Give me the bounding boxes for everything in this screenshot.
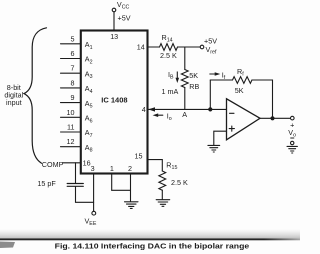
minus sign under Vo [291, 137, 294, 139]
svg-text:2.5 K: 2.5 K [160, 51, 177, 60]
ground at R15 [156, 200, 170, 207]
svg-text:7: 7 [71, 64, 75, 73]
wire capacitor bottom to pin 3 [76, 187, 94, 203]
svg-text:A7: A7 [85, 128, 93, 139]
svg-text:16: 16 [83, 159, 91, 168]
wire Rf to output node [252, 80, 273, 118]
svg-text:IC 1408: IC 1408 [101, 95, 127, 104]
arrow If current [210, 73, 217, 75]
op-amp U1 triangle [227, 99, 261, 140]
wire pin 5 input [61, 43, 81, 45]
svg-text:A1: A1 [85, 40, 93, 51]
svg-text:A2: A2 [85, 55, 93, 66]
arrow IB down [176, 72, 180, 84]
svg-text:If: If [222, 70, 226, 81]
wire pin 7 input [61, 72, 81, 74]
capacitor C 15pF plates [67, 184, 83, 187]
wire pin 12 input [61, 146, 81, 148]
brace for 8-bit digital input [24, 28, 47, 163]
terminal Vcc [112, 8, 116, 12]
wire pin 10 input [61, 116, 81, 118]
wire COMP branch down to capacitor [75, 163, 77, 183]
label 8-bit digital input [4, 83, 23, 107]
svg-text:15 pF: 15 pF [37, 179, 56, 188]
svg-text:Vo: Vo [288, 128, 296, 139]
caption rule [0, 238, 300, 240]
terminal Vo minus [291, 141, 294, 144]
wire pin 14 to R14 [148, 46, 160, 48]
svg-text:A3: A3 [85, 69, 93, 80]
svg-text:Fig. 14.110 Interfacing DAC in: Fig. 14.110 Interfacing DAC in the bipol… [55, 242, 249, 251]
pin number labels 5-12 [67, 34, 75, 146]
wire pin 11 input [61, 131, 81, 133]
wire R15 to ground [161, 190, 163, 199]
op-amp noninverting input plus sign [229, 126, 234, 131]
wire op-amp noninverting input [214, 131, 227, 145]
svg-text:R14: R14 [162, 33, 173, 44]
svg-text:2: 2 [128, 164, 132, 173]
input labels A1-A8 [85, 40, 93, 154]
resistor Rf 5K [233, 77, 252, 84]
svg-text:8: 8 [71, 78, 75, 87]
svg-text:5K: 5K [189, 71, 198, 80]
svg-text:13: 13 [110, 32, 118, 41]
wire pin 15 to R15 [148, 160, 163, 171]
svg-text:3: 3 [91, 164, 95, 173]
svg-text:1 mA: 1 mA [162, 87, 179, 96]
wire op-amp output to Vo terminal [260, 117, 291, 119]
node A junction dot [208, 107, 212, 111]
ground at op-amp noninverting input [208, 145, 220, 152]
wire pin 16 COMP [63, 162, 81, 164]
svg-text:10: 10 [67, 108, 75, 117]
svg-text:COMP: COMP [42, 160, 64, 169]
IC 1408 body [81, 31, 148, 174]
ground at Vo minus [287, 146, 297, 153]
svg-text:+5V: +5V [118, 14, 131, 23]
wire pin 3 to Vee [93, 174, 95, 212]
svg-text:A: A [182, 110, 187, 119]
svg-text:RB: RB [189, 82, 199, 91]
svg-text:5K: 5K [235, 86, 244, 95]
svg-text:1: 1 [110, 164, 114, 173]
wire pin 9 input [61, 102, 81, 104]
svg-text:15: 15 [135, 152, 143, 161]
wire pin 8 input [61, 87, 81, 89]
wire pin 4 to op-amp inverting input [148, 108, 227, 110]
terminal Vo plus [291, 116, 295, 120]
svg-text:R15: R15 [166, 160, 177, 171]
wire pin 2 to ground [130, 174, 132, 202]
svg-text:11: 11 [67, 123, 74, 132]
svg-text:9: 9 [71, 93, 75, 102]
ground at pin 2 [125, 202, 139, 209]
scan blob bottom left [0, 242, 15, 249]
wire node A up to feedback [209, 80, 211, 109]
wire RB lower lead to node A [184, 88, 186, 110]
wire pin1 to pin2 connector [112, 189, 131, 191]
wire feedback to Rf [210, 79, 232, 81]
svg-text:Io: Io [167, 111, 172, 122]
svg-text:input: input [6, 98, 22, 107]
svg-text:12: 12 [67, 137, 75, 146]
svg-text:A4: A4 [85, 84, 93, 95]
op-amp inverting input minus sign [230, 112, 235, 114]
scan shading above caption rule [0, 229, 300, 238]
terminal Vee [92, 211, 96, 215]
wire pin 6 input [61, 58, 81, 60]
svg-text:Vref: Vref [206, 45, 218, 56]
terminal Vref +5V [200, 45, 204, 49]
svg-text:14: 14 [137, 43, 145, 52]
svg-text:2.5 K: 2.5 K [171, 178, 188, 187]
wire RB upper lead [184, 47, 186, 70]
wire pin 13 Vcc [113, 12, 115, 31]
svg-text:A8: A8 [85, 143, 93, 154]
svg-text:Rf: Rf [237, 67, 244, 78]
junction dot output node [270, 116, 274, 120]
svg-text:5: 5 [71, 34, 75, 43]
arrowhead Io into pin 4 [148, 107, 155, 111]
svg-text:A6: A6 [85, 114, 93, 125]
svg-text:VCC: VCC [117, 0, 130, 11]
svg-text:VEE: VEE [85, 217, 97, 228]
arrow Io current [157, 114, 163, 116]
resistor R15 2.5K [159, 171, 166, 190]
resistor RB 5K [181, 70, 188, 88]
wire R14 to Vref terminal [178, 46, 201, 48]
svg-text:4: 4 [142, 105, 146, 114]
svg-text:IB: IB [168, 70, 174, 81]
svg-text:A5: A5 [85, 99, 93, 110]
resistor R14 2.5K [160, 44, 178, 51]
wire pin 1 [111, 174, 113, 191]
svg-text:6: 6 [71, 49, 75, 58]
